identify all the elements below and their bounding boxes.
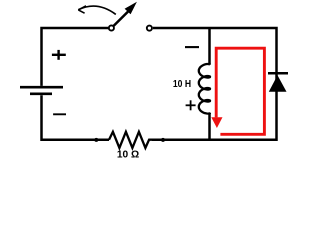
svg-text:10 Ω: 10 Ω: [117, 148, 139, 160]
svg-text:10 H: 10 H: [173, 78, 191, 90]
